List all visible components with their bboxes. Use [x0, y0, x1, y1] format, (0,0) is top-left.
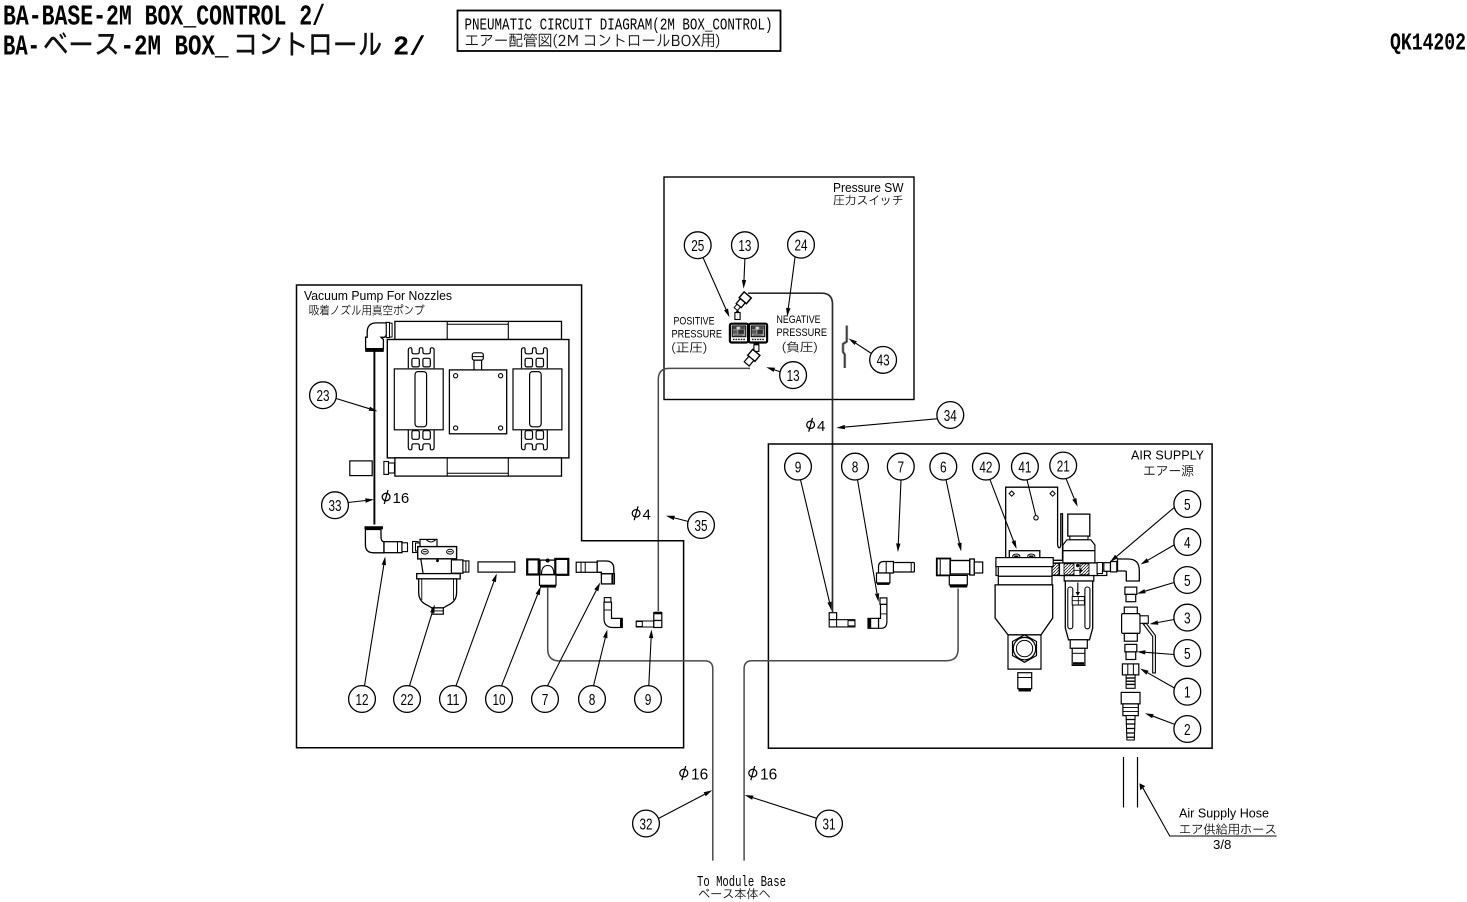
svg-text:5: 5	[1184, 497, 1191, 514]
plate screw hole diamonds	[1009, 491, 1055, 496]
svg-text:32: 32	[640, 816, 653, 833]
ball valve item 3	[1122, 607, 1156, 673]
label POSITIVE PRESSURE	[672, 316, 723, 341]
lubricator unit (right bowl)	[1064, 576, 1094, 666]
clamp foot item 42	[1009, 551, 1040, 567]
pump left chamber slot	[415, 372, 427, 427]
leader arrow to tube net D (item 32)	[659, 790, 712, 818]
callout balloon item 23	[310, 382, 337, 409]
label air supply hose japanese	[1180, 823, 1275, 834]
digital pressure switch negative pressure (item 24)	[749, 324, 767, 343]
pump center mounting plate	[449, 370, 506, 434]
label vacuum pump japanese	[310, 304, 425, 315]
pump right chamber slot	[530, 372, 542, 427]
svg-text:PRESSURE: PRESSURE	[672, 329, 723, 341]
pump cooling fins top-left	[408, 348, 434, 369]
pump cooling fins top-right	[522, 348, 548, 369]
svg-text:5: 5	[1184, 573, 1191, 590]
callout balloon item 9	[635, 686, 662, 713]
hose barb item 2	[1121, 692, 1140, 740]
plate bolt holes	[454, 374, 503, 431]
callout balloon item 7	[887, 453, 914, 480]
label pressure switch (japanese)	[834, 195, 903, 206]
callout balloon item 32	[633, 810, 660, 837]
leader arrow to valve 3	[1150, 620, 1175, 625]
elbow fitting item 7 (air box)	[877, 562, 915, 584]
svg-text:4: 4	[643, 507, 651, 524]
svg-text:12: 12	[356, 692, 369, 709]
leader line to plate hole 41	[1027, 480, 1036, 515]
callout balloon item 7	[532, 686, 559, 713]
callout balloon item 12	[349, 686, 376, 713]
svg-text:16: 16	[691, 767, 708, 784]
svg-text:25: 25	[691, 238, 704, 255]
leader arrow to clamp 42	[990, 480, 1017, 549]
leader arrow to positive pressure switch	[703, 258, 730, 318]
callout balloon item 2	[1174, 716, 1201, 743]
vacuum pump bottom cylinder tube	[395, 458, 562, 476]
svg-text:35: 35	[695, 518, 708, 535]
pump bottom left connector	[384, 462, 395, 475]
callout balloon item 22	[394, 686, 421, 713]
pump top inlet elbow fitting	[365, 322, 392, 350]
leader arrow to tube phi4 net A	[836, 419, 937, 430]
svg-text:BA-: BA-	[3, 31, 40, 64]
leader arrow to fitting 13 lower	[766, 367, 781, 372]
pump top port fitting	[472, 353, 483, 370]
callout balloon item 4	[1174, 529, 1201, 556]
leader arrow to elbow 7	[548, 583, 601, 686]
svg-text:Vacuum Pump For Nozzles: Vacuum Pump For Nozzles	[304, 288, 452, 303]
callout balloon item 34	[937, 402, 964, 429]
callout balloon item 10	[486, 686, 513, 713]
svg-text:3/8: 3/8	[1213, 837, 1231, 852]
leader arrow to tube phi16 (item 33)	[348, 498, 374, 502]
tube from tee 10 down to module base left (net D)	[548, 588, 713, 861]
tee fitting item 10	[527, 559, 568, 587]
svg-text:21: 21	[1057, 458, 1070, 475]
callout balloon item 13	[732, 232, 759, 259]
leader arrow to regulator knob 21	[1066, 479, 1078, 507]
svg-text:PRESSURE: PRESSURE	[777, 327, 828, 339]
svg-text:9: 9	[645, 692, 652, 709]
svg-text:3: 3	[1184, 610, 1191, 627]
svg-text:24: 24	[795, 238, 808, 255]
svg-text:7: 7	[898, 459, 905, 476]
svg-text:34: 34	[944, 408, 957, 425]
leader arrow to connector 5 second	[1137, 583, 1174, 594]
elbow fitting item 13 (upper, on positive pressure switch)	[732, 292, 751, 312]
svg-text:NEGATIVE: NEGATIVE	[777, 314, 821, 326]
svg-text:41: 41	[1018, 459, 1031, 476]
svg-text:2/: 2/	[393, 34, 425, 64]
tube from tee 6 down to module base right (net E)	[744, 589, 958, 861]
pump right chamber	[513, 369, 562, 430]
svg-text:4: 4	[817, 418, 825, 435]
callout balloon item 25	[684, 232, 711, 259]
title block text line 2 (japanese)	[466, 33, 719, 48]
label phi16 right	[749, 766, 777, 784]
leader arrow to fitting 13 upper	[742, 259, 746, 289]
svg-text:42: 42	[979, 459, 992, 476]
straight tube item 11	[478, 562, 515, 572]
fitting item 1	[1122, 664, 1138, 688]
svg-text:Pressure SW: Pressure SW	[833, 181, 904, 195]
svg-text:13: 13	[787, 368, 800, 385]
elbow fitting item 7 (pump box)	[576, 561, 614, 584]
leader arrow to bracket 43	[849, 339, 872, 354]
svg-text:22: 22	[401, 692, 414, 709]
svg-text:9: 9	[795, 459, 802, 476]
svg-text:43: 43	[877, 353, 890, 370]
svg-text:7: 7	[542, 692, 549, 709]
elbow fitting item 9 (air box, tube A end)	[829, 613, 855, 627]
callout balloon item 43	[870, 347, 897, 374]
callout balloon item 41	[1012, 453, 1039, 480]
svg-text:5: 5	[1184, 646, 1191, 663]
mounting bracket item 43	[843, 326, 847, 369]
callout balloon item 9	[785, 453, 812, 480]
vacuum filter item 22	[413, 539, 469, 614]
leader arrow to connector 5 third	[1137, 650, 1174, 654]
filter unit body (left bowl)	[995, 558, 1053, 690]
leader arrow to fitting 8 air box	[858, 480, 880, 602]
title block box	[458, 11, 781, 52]
tube phi4 from negative pressure switch to vacuum pump elbow (net B)	[658, 368, 750, 611]
svg-text:BA-BASE-2M BOX_CONTROL 2/: BA-BASE-2M BOX_CONTROL 2/	[3, 1, 325, 34]
callout balloon item 31	[816, 810, 843, 837]
leader arrow to tee 6	[946, 480, 962, 552]
callout balloon item 5	[1174, 567, 1201, 594]
regulator knob item 21	[1063, 514, 1095, 563]
callout balloon item 35	[688, 512, 715, 539]
callout balloon item 8	[842, 453, 869, 480]
callout balloon item 24	[788, 231, 815, 258]
label phi16 vertical tube	[382, 490, 409, 507]
svg-text:10: 10	[493, 692, 506, 709]
label (positive) japanese	[672, 342, 706, 354]
leader arrow to elbow 7 air box	[896, 480, 901, 552]
label phi16 left	[680, 766, 708, 784]
leader arrow to fitting 9 air box	[801, 480, 832, 611]
label to module base japanese	[699, 888, 770, 899]
elbow fitting item 8 (air box)	[868, 598, 887, 628]
svg-text:AIR SUPPLY: AIR SUPPLY	[1131, 448, 1204, 463]
svg-text:11: 11	[447, 692, 460, 709]
callout balloon item 3	[1174, 604, 1201, 631]
callout balloon item 11	[440, 686, 467, 713]
tube phi16 from pump elbow down to elbow 12 (net C)	[373, 351, 375, 525]
regulator body below knob	[1060, 563, 1098, 576]
vacuum pump item 23 : top cylinder tube	[395, 321, 562, 339]
elbow item 4	[1118, 559, 1140, 581]
svg-text:23: 23	[317, 388, 330, 405]
svg-text:16: 16	[760, 767, 777, 784]
callout balloon item 5	[1174, 640, 1201, 667]
callout balloon item 21	[1050, 452, 1077, 479]
pressure switch enclosure box	[664, 177, 914, 400]
label (negative) japanese	[783, 341, 817, 353]
svg-text:31: 31	[823, 816, 836, 833]
leader arrow to filter 22	[410, 605, 435, 686]
svg-text:13: 13	[738, 238, 751, 255]
svg-text:PNEUMATIC CIRCUIT DIAGRAM(2M B: PNEUMATIC CIRCUIT DIAGRAM(2M BOX_CONTROL…	[465, 17, 773, 35]
connector item 5 (top)	[1104, 562, 1117, 572]
tube phi4 from positive pressure switch to air supply elbow (net A)	[748, 293, 833, 612]
svg-text:To Module Base: To Module Base	[697, 875, 786, 891]
callout balloon item 1	[1174, 678, 1201, 705]
leader arrow to tube phi4 net B	[666, 516, 688, 522]
leader arrow to elbow 4	[1141, 545, 1175, 565]
vacuum pump body	[387, 340, 569, 458]
leader arrow to negative pressure switch	[786, 257, 795, 316]
air supply hose lines	[1124, 757, 1138, 808]
leader arrow to tube 11	[456, 574, 497, 686]
pump bottom left auxiliary box	[350, 461, 372, 476]
elbow fitting item 8 (pump box)	[604, 598, 622, 628]
mounting plate item 42/41	[1006, 487, 1063, 560]
connector item 5 (third)	[1125, 644, 1137, 659]
manifold band	[996, 563, 1107, 576]
leader arrow to elbow 9	[649, 630, 654, 686]
leader arrow to pump body (item 23)	[336, 399, 377, 412]
fitting 13 upper stem into switch	[735, 310, 740, 319]
svg-text:-2M BOX_: -2M BOX_	[121, 31, 229, 64]
elbow fitting item 12	[365, 528, 408, 553]
pump cooling fins bottom-left	[408, 429, 434, 450]
svg-text:2: 2	[1184, 722, 1191, 739]
svg-text:8: 8	[852, 459, 859, 476]
leader arrow to connector 5 top	[1110, 508, 1174, 563]
callout balloon item 6	[930, 453, 957, 480]
pump left chamber	[394, 369, 443, 430]
pump cooling fins bottom-right	[522, 429, 548, 450]
svg-text:33: 33	[329, 498, 342, 515]
callout balloon item 5	[1174, 491, 1201, 518]
callout balloon item 33	[322, 492, 349, 519]
tee fitting item 6	[937, 559, 983, 587]
leader arrow to elbow 8	[594, 630, 608, 686]
leader arrow to fitting 1	[1140, 669, 1174, 689]
callout balloon item 42	[973, 453, 1000, 480]
svg-text:Air Supply Hose: Air Supply Hose	[1179, 806, 1269, 821]
svg-text:4: 4	[1184, 535, 1191, 552]
elbow fitting item 13 (lower, tube to vacuum side)	[743, 342, 760, 367]
callout balloon item 8	[579, 686, 606, 713]
label NEGATIVE PRESSURE	[777, 314, 828, 339]
svg-text:16: 16	[393, 490, 410, 507]
connector item 5 (second)	[1125, 587, 1137, 602]
svg-text:6: 6	[940, 459, 947, 476]
leader arrow to elbow 12	[365, 557, 387, 686]
leader arrow to tee 10	[502, 587, 541, 686]
air supply hose leader	[1139, 783, 1276, 836]
label phi4 on net B	[632, 506, 651, 523]
outlet port fitting right of manifold	[1097, 563, 1102, 574]
label phi4 on net A	[807, 418, 826, 435]
svg-text:8: 8	[589, 692, 596, 709]
leader arrow to hose barb 2	[1145, 713, 1175, 724]
drawing title line 2 (japanese)	[3, 31, 425, 64]
leader arrow to tube net E (item 31)	[745, 795, 817, 818]
label air source japanese	[1144, 465, 1193, 477]
svg-text:1: 1	[1184, 685, 1191, 702]
svg-text:POSITIVE: POSITIVE	[674, 316, 715, 328]
callout balloon item 13	[780, 362, 807, 389]
elbow fitting item 9 (pump box, tube B end)	[636, 613, 662, 628]
digital pressure switch positive pressure (item 25)	[730, 324, 748, 343]
plate center hole (item 41 target)	[1034, 516, 1038, 520]
svg-text:QK14202: QK14202	[1390, 31, 1466, 58]
vacuum pump enclosure box (stepped outline)	[297, 285, 684, 748]
air supply enclosure box	[768, 444, 1212, 748]
